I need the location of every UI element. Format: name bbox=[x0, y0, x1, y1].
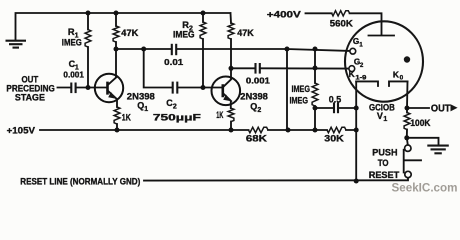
svg-text:1-9: 1-9 bbox=[355, 74, 367, 81]
svg-text:K: K bbox=[349, 69, 355, 79]
svg-text:2: 2 bbox=[257, 107, 261, 114]
svg-text:Q: Q bbox=[250, 102, 257, 112]
svg-text:OUT: OUT bbox=[431, 103, 451, 114]
svg-text:0.01: 0.01 bbox=[164, 57, 183, 67]
svg-text:PUSH: PUSH bbox=[372, 146, 397, 157]
svg-text:1: 1 bbox=[144, 106, 148, 113]
svg-text:0.5: 0.5 bbox=[329, 95, 341, 105]
svg-text:K: K bbox=[393, 69, 399, 79]
svg-text:TO: TO bbox=[378, 157, 389, 168]
svg-text:IMEG: IMEG bbox=[292, 84, 311, 94]
svg-text:+105V: +105V bbox=[7, 126, 36, 137]
svg-text:SeekIC.com: SeekIC.com bbox=[392, 180, 458, 194]
svg-text:2N398: 2N398 bbox=[240, 91, 268, 101]
svg-text:+400V: +400V bbox=[267, 10, 302, 21]
svg-text:30K: 30K bbox=[324, 133, 344, 143]
svg-text:560K: 560K bbox=[330, 18, 353, 28]
svg-text:0: 0 bbox=[400, 75, 404, 82]
svg-text:1: 1 bbox=[383, 116, 387, 123]
svg-text:IMEG: IMEG bbox=[290, 96, 309, 106]
svg-text:RESET LINE (NORMALLY GND): RESET LINE (NORMALLY GND) bbox=[20, 176, 140, 187]
svg-text:47K: 47K bbox=[121, 28, 138, 38]
svg-text:V: V bbox=[377, 111, 383, 121]
svg-text:IMEG: IMEG bbox=[173, 30, 195, 40]
svg-text:68K: 68K bbox=[246, 133, 267, 143]
svg-text:0.001: 0.001 bbox=[246, 76, 270, 86]
svg-text:2: 2 bbox=[173, 103, 177, 110]
svg-text:STAGE: STAGE bbox=[15, 92, 46, 103]
svg-text:1K: 1K bbox=[122, 113, 131, 123]
svg-text:1K: 1K bbox=[216, 110, 223, 120]
svg-text:750μμF: 750μμF bbox=[153, 113, 201, 123]
svg-text:2: 2 bbox=[360, 62, 364, 69]
svg-text:1: 1 bbox=[359, 42, 363, 49]
svg-text:100K: 100K bbox=[410, 118, 430, 128]
svg-text:RESET: RESET bbox=[369, 169, 400, 180]
svg-text:IMEG: IMEG bbox=[62, 37, 82, 47]
svg-text:47K: 47K bbox=[237, 28, 254, 38]
svg-text:0.001: 0.001 bbox=[63, 70, 84, 80]
svg-text:Q: Q bbox=[137, 101, 144, 111]
